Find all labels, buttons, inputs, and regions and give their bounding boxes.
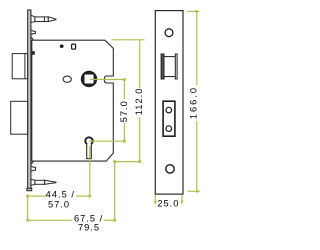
housing box 1 (left of plate) [12,54,28,79]
keyhole vertical extension down [89,146,91,196]
deadbolt opening with screw holes [163,101,175,136]
oval hole [63,76,71,82]
keyhole centerline [89,140,124,142]
faceplate front view (right drawing) [155,11,183,195]
112.0 top extension [112,39,145,41]
57.0 vertical dim line [123,80,125,100]
dim1 44.5/57.0 line [28,195,47,197]
top-left corner chamfer detail [31,37,34,41]
latch bolt (top, side view) [31,15,56,22]
green junction dots [26,78,141,222]
svg-text:79.5: 79.5 [78,223,100,233]
screw dot [60,45,64,48]
svg-text:166.0: 166.0 [188,86,198,119]
112.0 bottom extension [115,161,140,163]
svg-text:44.5 /: 44.5 / [46,190,75,200]
dim2 67.5/79.5 line [28,219,72,221]
housing box 2 (left of plate) [11,101,28,134]
latch opening (front view) [161,54,177,79]
small tab below case (side view) [31,166,36,172]
dimension lines (green) [28,40,145,221]
screw hole bottom [166,165,174,173]
spindle follower [82,72,96,86]
small step on case left edge [32,51,35,54]
166.0 dimension (green) [187,11,199,191]
small tab above case (side view) [31,30,35,35]
small square glyph [72,44,76,49]
112.0 vertical dim line [139,40,141,88]
deadbolt (bottom, side view) [31,179,56,185]
svg-text:112.0: 112.0 [134,88,144,116]
faceplate side view (left drawing) [27,10,32,191]
screw hole top [165,29,173,37]
lock case outline [32,40,114,161]
bottom-left corner chamfer detail [31,161,34,165]
svg-text:25.0: 25.0 [157,198,179,208]
right vertical extension down to dim2 [114,162,116,221]
left vertical extension [27,196,29,221]
svg-text:57.0: 57.0 [48,200,70,210]
svg-text:57.0: 57.0 [119,100,129,122]
keyhole [85,137,92,158]
follower centerline [90,79,124,81]
25.0 dimension (green) [155,195,182,205]
